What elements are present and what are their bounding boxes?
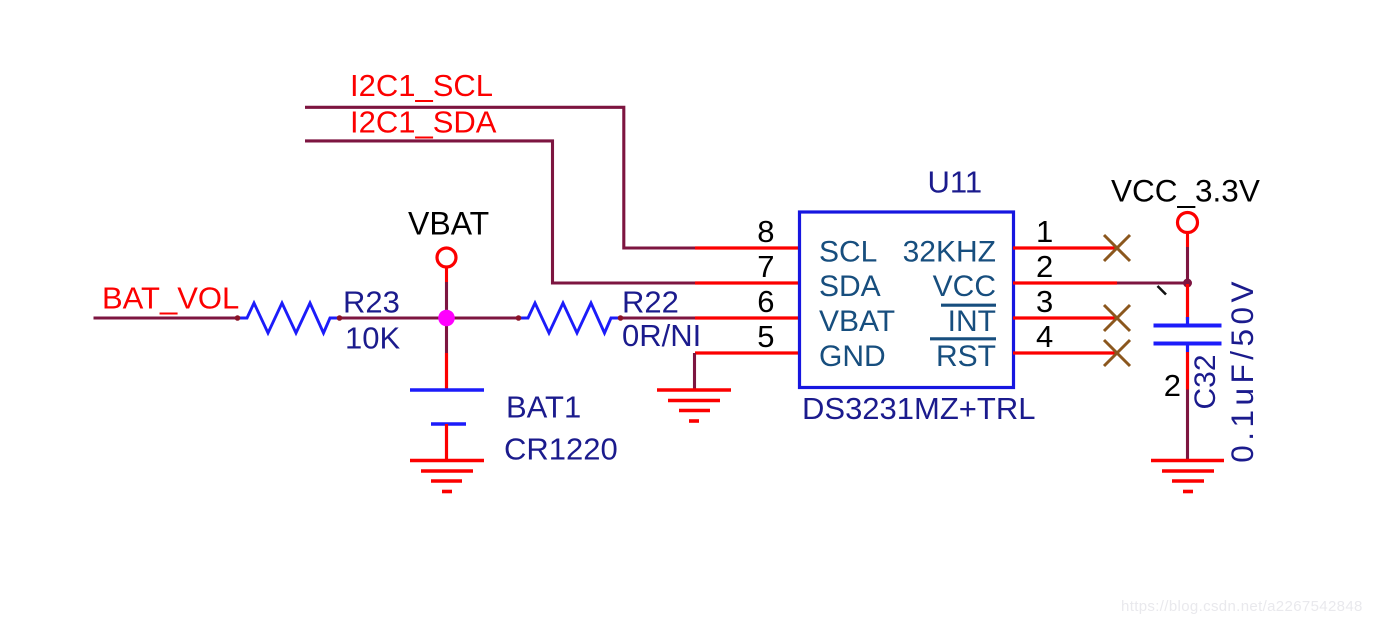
- svg-text:I2C1_SDA: I2C1_SDA: [350, 105, 497, 140]
- node junction at VCC net: [1183, 279, 1192, 288]
- svg-text:7: 7: [757, 249, 774, 284]
- op IC U11 body: [800, 212, 1014, 388]
- wire net I2C1_SCL to pin 8: [305, 107, 696, 248]
- svg-text:U11: U11: [928, 165, 983, 200]
- svg-text:DS3231MZ+TRL: DS3231MZ+TRL: [802, 391, 1035, 426]
- pin 8 stub: [695, 246, 799, 249]
- pin 4 stub: [1013, 351, 1117, 354]
- node VBAT junction dot: [438, 310, 455, 327]
- svg-text:BAT1: BAT1: [506, 390, 581, 425]
- svg-text:5: 5: [757, 319, 774, 354]
- wire C32 to ground: [1186, 390, 1189, 462]
- svg-text:SCL: SCL: [819, 236, 877, 269]
- pin 7 stub: [695, 281, 799, 284]
- wire pin 2 to junction: [1117, 281, 1188, 284]
- svg-text:INT: INT: [948, 305, 996, 338]
- ground under battery: [410, 461, 484, 492]
- VCC power pin stub: [1186, 233, 1189, 248]
- resistor R22: [518, 303, 621, 333]
- svg-text:4: 4: [1036, 319, 1053, 354]
- VBAT pin stub: [445, 267, 448, 282]
- svg-text:2: 2: [1164, 368, 1181, 403]
- svg-text:32KHZ: 32KHZ: [903, 236, 996, 269]
- wire R23 to junction to R22: [339, 316, 519, 319]
- ground under C32: [1151, 461, 1224, 492]
- power symbol VBAT circle: [437, 248, 456, 267]
- svg-text:RST: RST: [936, 340, 996, 373]
- svg-text:6: 6: [757, 284, 774, 319]
- capacitor C32 plates: [1154, 317, 1222, 352]
- wire VBAT to junction to battery: [445, 282, 448, 353]
- resistor R23: [237, 303, 340, 333]
- wire VCC vertical to junction: [1186, 247, 1189, 284]
- no-connect X on pin 3: [1104, 305, 1130, 331]
- wire net I2C1_SDA to pin 7: [305, 141, 696, 283]
- battery BAT1: [410, 390, 484, 461]
- wire pin 5 to ground: [693, 353, 696, 390]
- svg-text:https://blog.csdn.net/a2267542: https://blog.csdn.net/a2267542848: [1121, 598, 1363, 615]
- wire R22 to pin 6: [620, 316, 696, 319]
- svg-text:2: 2: [1036, 249, 1053, 284]
- svg-text:3: 3: [1036, 284, 1053, 319]
- svg-text:GND: GND: [819, 340, 886, 373]
- pin 2 stub: [1013, 281, 1117, 284]
- battery pin stub top: [445, 353, 448, 390]
- svg-text:10K: 10K: [345, 321, 400, 356]
- svg-text:CR1220: CR1220: [504, 432, 618, 467]
- svg-text:C32: C32: [1189, 354, 1222, 409]
- no-connect X on pin 1: [1104, 235, 1130, 261]
- svg-text:0R/NI: 0R/NI: [622, 318, 701, 353]
- svg-text:I2C1_SCL: I2C1_SCL: [350, 68, 493, 103]
- svg-text:VCC_3.3V: VCC_3.3V: [1111, 173, 1260, 209]
- wire BAT_VOL to R23: [94, 316, 239, 319]
- svg-text:VBAT: VBAT: [408, 206, 489, 242]
- capacitor C32 pin 1 number mark: [1158, 286, 1167, 295]
- svg-text:VCC: VCC: [933, 270, 996, 303]
- pin 1 stub: [1013, 246, 1117, 249]
- capacitor C32 pin 2 stub: [1186, 352, 1189, 390]
- capacitor C32 pin 1 stub: [1186, 284, 1189, 320]
- svg-text:0.1uF/50V: 0.1uF/50V: [1224, 277, 1260, 463]
- svg-text:SDA: SDA: [819, 270, 881, 303]
- svg-text:R22: R22: [622, 285, 679, 320]
- svg-text:VBAT: VBAT: [819, 305, 895, 338]
- svg-text:BAT_VOL: BAT_VOL: [102, 280, 239, 315]
- pin 6 stub: [695, 316, 799, 319]
- pin 3 stub: [1013, 316, 1117, 319]
- ground at pin 5: [657, 390, 731, 421]
- wire junction dots on rail: [235, 315, 624, 321]
- no-connect X on pin 4: [1104, 340, 1130, 366]
- power symbol VCC_3.3V circle: [1178, 213, 1198, 233]
- svg-text:8: 8: [757, 214, 774, 249]
- svg-text:1: 1: [1036, 214, 1053, 249]
- svg-text:R23: R23: [343, 285, 400, 320]
- pin 5 stub: [695, 351, 799, 354]
